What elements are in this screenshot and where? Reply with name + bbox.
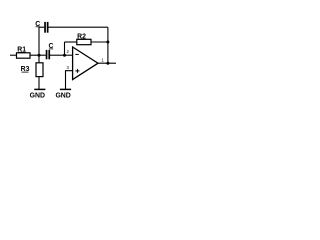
wire: op-amp output: [97, 62, 116, 64]
label R2: [77, 33, 86, 40]
wire: C2 to node B: [50, 54, 65, 56]
resistor R1: [17, 53, 31, 58]
capacitor C2 (middle): [46, 50, 50, 59]
wire: C1 to right corner: [48, 26, 108, 28]
wire: node A up to top corner: [38, 27, 40, 55]
ground GND2: [55, 89, 71, 99]
junction: output node: [106, 62, 109, 65]
wire: top corner to capacitor C1: [39, 26, 45, 28]
wire: node B to inverting input: [65, 54, 73, 56]
wire: R2 to right vertical: [91, 41, 108, 43]
wire: node B up to feedback: [64, 42, 66, 55]
ground GND1: [30, 89, 46, 99]
wire: node A down to R3: [38, 55, 40, 63]
resistor R2: [77, 39, 91, 44]
svg-text:GND: GND: [30, 92, 45, 99]
wire: R3 to ground: [38, 77, 40, 90]
resistor R3: [36, 63, 43, 77]
wire: non-inverting input from ground: [66, 71, 73, 90]
svg-text:GND: GND: [55, 92, 70, 99]
op-amp U1: [73, 47, 98, 80]
label C (middle capacitor): [49, 43, 54, 50]
wire: feedback left segment to R2: [65, 41, 78, 43]
junction node B: [63, 54, 66, 57]
junction node A: [38, 54, 41, 57]
wire: R1 to node A: [30, 54, 39, 56]
wire: input stub to R1: [10, 54, 17, 56]
wire: right vertical down to output node: [107, 27, 109, 63]
label R3: [21, 66, 30, 73]
capacitor C1 (top): [44, 22, 48, 33]
wire: node A to capacitor C2: [39, 54, 46, 56]
label C (top capacitor): [35, 21, 40, 28]
label R1: [17, 46, 26, 53]
junction: feedback meets right vertical: [106, 41, 109, 44]
